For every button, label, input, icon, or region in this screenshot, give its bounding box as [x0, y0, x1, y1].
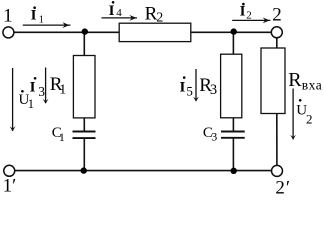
svg-text:вха: вха [302, 78, 322, 93]
svg-text:1: 1 [59, 82, 66, 97]
svg-text:I: I [240, 3, 246, 19]
svg-text:3: 3 [38, 84, 45, 99]
svg-text:1: 1 [59, 130, 65, 144]
svg-text:2′: 2′ [275, 178, 291, 196]
svg-text:1: 1 [28, 97, 34, 111]
svg-text:1′: 1′ [3, 176, 17, 196]
svg-text:I: I [180, 79, 186, 95]
svg-text:R: R [288, 69, 302, 91]
svg-text:2: 2 [306, 112, 313, 127]
svg-text:I: I [30, 79, 36, 95]
svg-text:I: I [31, 7, 37, 23]
svg-text:2: 2 [272, 5, 282, 26]
svg-text:I: I [109, 3, 115, 19]
svg-text:2: 2 [246, 9, 252, 21]
svg-text:3: 3 [210, 82, 217, 98]
svg-text:5: 5 [186, 83, 193, 98]
svg-text:2: 2 [156, 10, 163, 25]
svg-text:1: 1 [39, 14, 44, 25]
svg-text:1: 1 [3, 6, 13, 27]
svg-text:3: 3 [211, 130, 217, 144]
svg-text:4: 4 [116, 7, 122, 19]
